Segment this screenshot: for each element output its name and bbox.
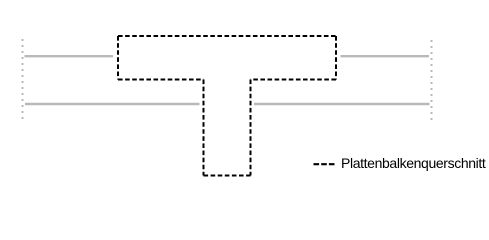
web right edge [250,80,252,176]
flange top edge [118,35,336,37]
web bottom edge [204,175,251,177]
slab bottom line right [254,103,430,105]
T-beam dashed outline [118,36,336,176]
slab bottom line left [25,103,200,105]
right slab edge dotted line [431,40,433,120]
web left edge [203,80,205,176]
legend dash sample [314,163,335,165]
svg-text:Plattenbalkenquerschnitt: Plattenbalkenquerschnitt [341,155,486,171]
flange right edge [335,36,337,80]
flange left edge [117,36,119,80]
slab top line left [25,55,114,57]
left slab edge dotted line [22,39,24,120]
flange bottom right edge [251,79,337,81]
flange bottom left edge [118,79,204,81]
slab top line right [341,55,430,57]
